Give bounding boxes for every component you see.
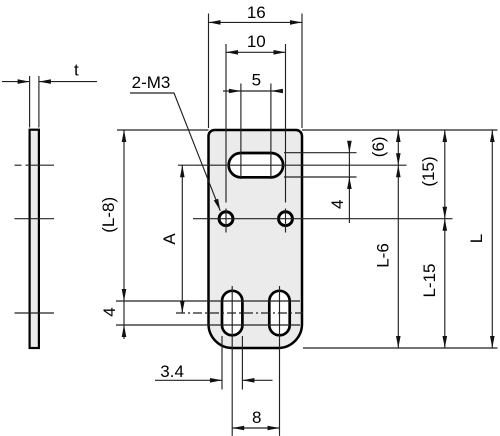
svg-text:5: 5	[252, 71, 261, 90]
node: bottom slots centerline dash-dot	[176, 312, 303, 314]
side view plate	[30, 130, 39, 348]
wire: ext line plate top right	[302, 129, 498, 131]
svg-text:16: 16	[247, 3, 266, 22]
dimension 6 and L-6 line	[397, 130, 399, 348]
arrow L-8 bottom / 4 top	[122, 289, 127, 301]
wire: ext line 3.4 left	[221, 336, 223, 390]
wire: ext line plate bottom right	[303, 347, 498, 349]
wire: ext line bottom slot arc lower	[116, 324, 300, 326]
node: top slot horizontal centerline	[178, 164, 407, 166]
arrow t left	[18, 79, 30, 84]
arrow 5 right outside	[271, 89, 283, 94]
svg-text:(L-8): (L-8)	[99, 197, 118, 233]
arrow leader 2-M3	[214, 199, 221, 211]
svg-text:t: t	[74, 60, 79, 79]
svg-text:L-15: L-15	[420, 263, 439, 297]
svg-text:4: 4	[100, 307, 119, 316]
wire: ext line t right	[38, 76, 40, 128]
arrow L-6 bottom	[396, 336, 401, 348]
arrow 5 left outside	[229, 89, 241, 94]
wire: ext line 3.4 right	[241, 336, 243, 390]
dimension L line	[491, 130, 493, 348]
node: side view centerline bottom	[15, 312, 55, 314]
wire: ext line 16 left	[208, 14, 210, 129]
arrow 3.4 right outside	[242, 378, 254, 383]
node: left hole vertical centerline	[225, 44, 227, 203]
arrow 8 left	[232, 426, 244, 431]
svg-text:(6): (6)	[369, 136, 388, 157]
arrow L bottom	[490, 336, 495, 348]
svg-text:4: 4	[328, 199, 347, 208]
wire: ext line t left	[29, 76, 31, 128]
dimension 10 line	[226, 51, 286, 53]
svg-text:8: 8	[252, 408, 261, 427]
dimension 8 line	[232, 427, 279, 429]
arrow 3.4 left outside	[210, 378, 222, 383]
arrow L-8 top	[122, 130, 127, 142]
dimension 4 right line	[348, 141, 350, 223]
wire: ext line 5 right	[270, 84, 272, 180]
bottom slot right	[269, 291, 289, 336]
arrow L-15 bottom	[443, 336, 448, 348]
arrow A top	[180, 165, 185, 177]
arrow 15 top	[443, 130, 448, 142]
arrow 4 left bottom	[122, 325, 127, 337]
dimension 16 line	[209, 21, 303, 23]
dimension 3.4 line	[155, 379, 222, 381]
node: right hole vertical centerline	[285, 44, 287, 203]
hole left 2-M3	[219, 212, 233, 226]
dimension A line	[181, 165, 183, 313]
arrow 15 bottom	[443, 207, 448, 219]
svg-text:L-6: L-6	[374, 243, 393, 268]
arrow 16 left	[209, 20, 221, 25]
arrow L top	[490, 130, 495, 142]
arrow 16 right	[290, 20, 302, 25]
node: side view centerline middle	[15, 218, 55, 220]
svg-text:2-M3: 2-M3	[132, 73, 171, 92]
arrow 4 right top	[347, 141, 352, 153]
leader 2-M3	[130, 93, 220, 211]
wire: ext line 5 left	[240, 84, 242, 180]
wire: ext line 16 right	[301, 14, 303, 129]
arrow 6 bottom	[396, 153, 401, 165]
arrow t right	[39, 79, 51, 84]
top slot	[229, 153, 283, 177]
wire: ext line top slot lower	[284, 176, 357, 178]
wire: ext line plate top left	[117, 129, 209, 131]
wire: ext line bottom slot arc upper	[116, 300, 300, 302]
arrow 6 top	[396, 130, 401, 142]
svg-text:A: A	[160, 233, 179, 245]
plate front view	[209, 130, 303, 348]
svg-text:3.4: 3.4	[160, 362, 184, 381]
dimension t line	[2, 81, 30, 83]
arrow L-6 top	[396, 165, 401, 177]
arrow 8 right	[268, 426, 280, 431]
dimension 15 and L-15 line	[444, 130, 446, 348]
svg-text:(15): (15)	[419, 156, 438, 186]
node: holes horizontal centerline	[193, 218, 453, 220]
svg-text:L: L	[467, 234, 486, 243]
dimension L-8 and 4 line	[123, 130, 125, 339]
arrow 10 right	[274, 50, 286, 55]
node: side view centerline top	[15, 164, 22, 166]
node: right bottom slot vertical centerline	[279, 286, 281, 436]
node: left bottom slot vertical centerline	[231, 286, 233, 436]
wire: ext line top slot upper	[284, 152, 357, 154]
arrow 4 right bottom	[347, 177, 352, 189]
arrow L-15 top	[443, 219, 448, 231]
bottom slot left	[222, 291, 242, 336]
arrow 10 left	[226, 50, 238, 55]
dimension 5 line	[223, 90, 283, 92]
svg-text:10: 10	[247, 32, 266, 51]
hole right 2-M3	[279, 212, 293, 226]
arrow A bottom	[180, 301, 185, 313]
